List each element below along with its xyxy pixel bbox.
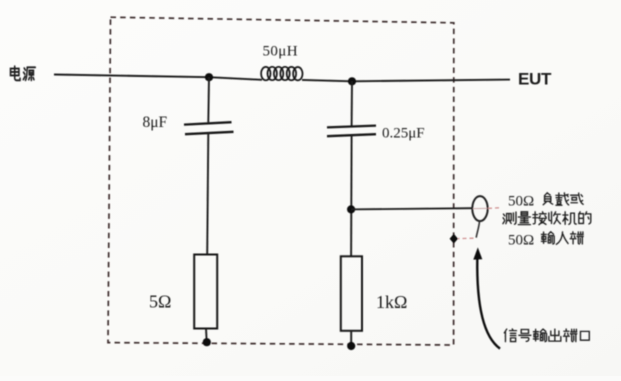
signal output arrow xyxy=(477,259,500,349)
wire: R1 to bottom node xyxy=(205,329,208,343)
node F (bottom right) xyxy=(347,342,355,350)
svg-text:1kΩ: 1kΩ xyxy=(376,292,407,312)
capacitor C2 0.25μF xyxy=(327,126,376,137)
node E port diamond on border xyxy=(450,234,458,244)
resistor R1 body xyxy=(194,255,217,329)
wire: C1 down to R1 xyxy=(207,133,208,255)
label 电源 (mains) xyxy=(11,66,36,80)
node B (right junction) xyxy=(348,77,356,85)
label 信号输出端口 xyxy=(504,329,589,342)
background xyxy=(0,0,1,1)
node D (tap junction) xyxy=(347,205,355,213)
connector stem hook xyxy=(476,221,479,238)
wire: R2 to bottom node xyxy=(350,331,352,346)
svg-text:8μF: 8μF xyxy=(143,114,168,131)
svg-text:EUT: EUT xyxy=(518,70,552,89)
label 50Ω 负载或 (line 1) xyxy=(508,193,583,210)
pink continuation dash right of connector xyxy=(488,207,499,210)
label 测量接收机的 (line 2) xyxy=(503,212,591,225)
svg-text:50μH: 50μH xyxy=(263,44,298,60)
pink dash from stem to port node xyxy=(458,237,474,239)
svg-text:0.25μF: 0.25μF xyxy=(382,126,425,142)
wire: C2 down to node D and R2 xyxy=(350,135,353,256)
connector J1 (coax port ellipse) xyxy=(472,196,487,221)
node A (left junction) xyxy=(205,73,213,81)
wire: mains line to EUT xyxy=(54,75,510,82)
resistor R2 body xyxy=(341,256,362,331)
wire: node D to connector xyxy=(351,208,472,209)
inductor L1 coil xyxy=(261,67,302,81)
dashed enclosure box xyxy=(108,17,454,345)
wire: node B down to C2 xyxy=(351,81,353,126)
pink dash inside connector xyxy=(473,207,487,209)
capacitor C1 8μF xyxy=(184,122,234,134)
svg-text:5Ω: 5Ω xyxy=(149,292,171,312)
label 50Ω 输入端 (line 3) xyxy=(508,232,583,249)
node C (bottom left) xyxy=(203,338,211,346)
wire: node A down to C1 xyxy=(207,77,210,122)
svg-text:50Ω: 50Ω xyxy=(508,194,534,210)
svg-text:50Ω: 50Ω xyxy=(508,233,534,249)
